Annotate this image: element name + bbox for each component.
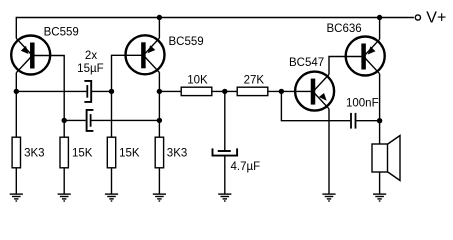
ground G6 — [322, 193, 335, 195]
wire R3 to ground — [111, 168, 113, 194]
wire R6 to node F — [268, 90, 312, 92]
wire Q3 emitter to ground — [328, 109, 330, 194]
resistor R2 15K — [60, 137, 68, 168]
svg-text:15K: 15K — [119, 148, 140, 160]
wire R2 to ground — [63, 168, 65, 194]
wire C3 to ground — [224, 156, 226, 195]
wire node D down to R4 — [158, 91, 160, 137]
transistor Q1 BC559 — [11, 36, 50, 75]
wire R5 to R6 — [212, 90, 237, 92]
transistor Q2 BC559 — [126, 35, 165, 74]
resistor R3 15K — [107, 137, 115, 168]
svg-text:BC636: BC636 — [327, 23, 362, 35]
resistor R5 10K — [181, 87, 212, 95]
wire Q1 collector down — [15, 73, 17, 92]
node E junction 10K/27K/C3 — [222, 89, 227, 94]
resistor R4 3K3 — [155, 137, 163, 168]
V+ terminal — [415, 15, 420, 20]
wire Q1 emitter from rail — [15, 17, 17, 39]
wire R1 to ground — [15, 168, 17, 194]
transistor Q4 BC636 — [346, 37, 385, 76]
ground G5 — [218, 193, 231, 195]
svg-text:2x: 2x — [85, 50, 97, 62]
capacitor C1 15uF bracket — [84, 81, 91, 102]
node A Q1 collector junction — [14, 89, 19, 94]
svg-text:10K: 10K — [187, 75, 208, 87]
wire R4 to ground — [158, 168, 160, 194]
node rail junction at Q4 emitter — [377, 15, 382, 20]
capacitor C3 4.7µF bracket — [213, 148, 238, 155]
wire node A to C1 — [16, 90, 86, 92]
capacitor C1 15uF plate — [86, 85, 88, 98]
ground G2 — [58, 193, 71, 195]
speaker LS1 cone — [388, 136, 400, 181]
speaker LS1 body — [372, 144, 388, 172]
svg-text:3K3: 3K3 — [167, 148, 187, 160]
svg-text:27K: 27K — [244, 75, 265, 87]
svg-text:15K: 15K — [72, 148, 93, 160]
svg-text:BC547: BC547 — [289, 57, 324, 69]
node C Q2 base junction — [109, 89, 114, 94]
wire Q4 collector to speaker — [379, 74, 381, 144]
wire node B to C2 — [64, 119, 86, 121]
node D2 junction of C2 line — [157, 118, 162, 123]
wire C1 to node C — [91, 90, 111, 92]
svg-text:100nF: 100nF — [346, 97, 379, 109]
wire node E down to C3 — [224, 91, 226, 150]
capacitor C3 4.7µF plate — [218, 150, 231, 152]
wire Q3 collector to Q4 base — [329, 57, 362, 75]
wire Q4 emitter from rail — [379, 18, 381, 40]
wire Q1 base to node B — [34, 56, 64, 121]
node B Q1 base junction — [61, 118, 66, 123]
transistor Q3 BC547 — [295, 72, 334, 111]
svg-text:BC559: BC559 — [169, 36, 204, 48]
wire node D to R5 — [159, 90, 181, 92]
wire C2 to node D — [91, 119, 160, 121]
capacitor C2 15uF bracket — [87, 110, 94, 131]
wire Q2 emitter from rail — [158, 18, 160, 39]
svg-text:V+: V+ — [426, 10, 446, 27]
wire V+ supply rail — [16, 17, 414, 19]
resistor R1 3K3 — [12, 137, 20, 168]
node D Q2 collector junction — [157, 89, 162, 94]
wire node C down to R3 — [111, 91, 113, 137]
wire node A down to R1 — [15, 91, 17, 137]
capacitor C4 100nF plate 1 — [350, 113, 352, 129]
node G output junction — [377, 118, 382, 123]
capacitor C2 15uF plate — [90, 114, 92, 127]
wire node F to C4 — [281, 91, 350, 120]
svg-text:3K3: 3K3 — [24, 148, 44, 160]
ground G3 — [105, 193, 118, 195]
wire C4 to node G — [356, 120, 379, 122]
wire speaker to ground — [379, 172, 381, 194]
resistor R6 27K — [237, 87, 268, 95]
ground G7 — [373, 193, 386, 195]
wire node B down to R2 — [63, 120, 65, 137]
svg-text:15µF: 15µF — [77, 63, 103, 75]
ground G4 — [153, 193, 166, 195]
node F Q3 base junction — [279, 89, 284, 94]
capacitor C4 100nF plate 2 — [355, 113, 357, 129]
svg-text:BC559: BC559 — [44, 27, 79, 39]
svg-text:4.7µF: 4.7µF — [231, 161, 261, 173]
ground G1 — [10, 193, 23, 195]
wire node C to Q2 base — [112, 55, 142, 91]
node rail junction at Q2 emitter — [157, 15, 162, 20]
wire Q2 collector down — [158, 73, 160, 92]
